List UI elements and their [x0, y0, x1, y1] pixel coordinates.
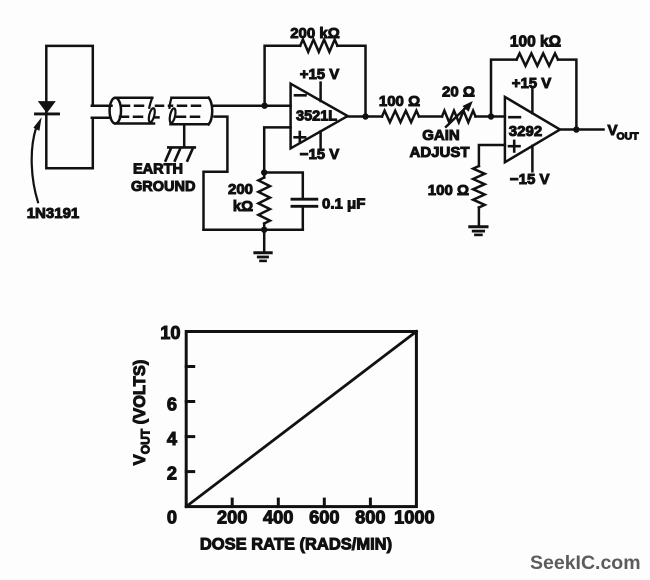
svg-text:0.1 μF: 0.1 μF	[322, 195, 365, 212]
svg-text:600: 600	[309, 508, 339, 528]
svg-text:2: 2	[167, 464, 177, 484]
svg-text:EARTH: EARTH	[133, 161, 183, 177]
svg-text:ADJUST: ADJUST	[409, 144, 469, 161]
svg-text:kΩ: kΩ	[233, 198, 253, 215]
svg-text:3292: 3292	[509, 123, 542, 140]
svg-text:400: 400	[263, 508, 293, 528]
svg-text:4: 4	[167, 429, 178, 449]
svg-text:100 kΩ: 100 kΩ	[510, 33, 561, 50]
svg-text:800: 800	[355, 508, 385, 528]
svg-text:SeekIC.com: SeekIC.com	[530, 552, 641, 574]
svg-text:−15 V: −15 V	[300, 146, 340, 163]
svg-text:0: 0	[167, 508, 177, 528]
svg-text:200 kΩ: 200 kΩ	[290, 25, 340, 42]
svg-text:GAIN: GAIN	[422, 127, 460, 144]
svg-text:6: 6	[167, 394, 177, 414]
svg-text:200: 200	[228, 181, 253, 198]
svg-text:200: 200	[217, 508, 247, 528]
svg-text:+15 V: +15 V	[512, 75, 552, 92]
svg-text:20 Ω: 20 Ω	[442, 84, 475, 101]
svg-text:100 Ω: 100 Ω	[379, 93, 420, 110]
svg-text:100 Ω: 100 Ω	[428, 182, 469, 199]
svg-text:−15 V: −15 V	[510, 171, 550, 188]
svg-text:GROUND: GROUND	[131, 179, 195, 195]
svg-text:1000: 1000	[394, 508, 434, 528]
svg-text:DOSE RATE (RADS/MIN): DOSE RATE (RADS/MIN)	[200, 535, 392, 553]
svg-text:OUT: OUT	[617, 131, 640, 143]
svg-text:10: 10	[160, 323, 180, 343]
svg-text:OUT: OUT	[139, 428, 153, 454]
svg-text:+15 V: +15 V	[300, 66, 340, 83]
svg-text:(VOLTS): (VOLTS)	[131, 360, 149, 425]
svg-text:3521L: 3521L	[296, 109, 337, 125]
svg-text:1N3191: 1N3191	[27, 205, 80, 222]
svg-text:V: V	[131, 454, 149, 465]
